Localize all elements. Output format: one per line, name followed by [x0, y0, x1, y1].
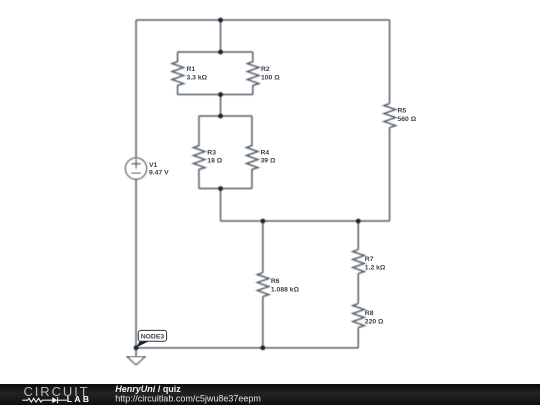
wire top T-branch — [220, 20, 222, 52]
junction mid rail R6 — [260, 219, 265, 224]
svg-text:3.3 kΩ: 3.3 kΩ — [187, 74, 208, 81]
svg-text:R1: R1 — [187, 66, 196, 73]
resistor R4 — [246, 116, 257, 189]
svg-text:R8: R8 — [365, 310, 374, 317]
label R1 value — [187, 66, 208, 81]
resistor R8 — [353, 304, 365, 328]
wire top rail — [136, 19, 389, 21]
resistor R3 — [193, 116, 205, 189]
wire R3R4 bottom to mid rail — [220, 189, 222, 222]
svg-text:HenryUni / quiz: HenryUni / quiz — [115, 384, 181, 394]
resistor R1 — [172, 52, 184, 95]
resistor R5 — [384, 104, 396, 128]
voltage source V1 circle — [125, 158, 146, 179]
logo resistor-diode wire — [22, 397, 67, 403]
junction mid rail R7 — [356, 219, 361, 224]
footer title HenryUni / quiz — [115, 384, 181, 394]
junction top rail — [218, 18, 223, 23]
svg-text:220 Ω: 220 Ω — [365, 318, 384, 325]
resistor R6 — [257, 273, 269, 297]
svg-text:9.47 V: 9.47 V — [149, 170, 169, 177]
resistor R2 — [247, 52, 258, 95]
svg-text:R4: R4 — [261, 149, 270, 156]
svg-text:V1: V1 — [149, 162, 158, 169]
svg-text:LAB: LAB — [67, 394, 92, 404]
ground — [127, 357, 145, 365]
label R2 value — [261, 66, 280, 81]
svg-text:560 Ω: 560 Ω — [398, 116, 417, 123]
label R4 value — [261, 149, 276, 164]
junction R3R4 bottom — [218, 186, 223, 191]
svg-text:1.088 kΩ: 1.088 kΩ — [271, 286, 300, 293]
wire R1R2 to R3R4 — [220, 95, 222, 117]
label R8 value — [365, 310, 384, 326]
wire R1R2 bottom rail — [178, 94, 253, 96]
label R3 value — [207, 149, 222, 164]
svg-text:18 Ω: 18 Ω — [207, 158, 222, 165]
junction R3R4 top — [218, 114, 223, 119]
node NODE3 flag — [136, 330, 167, 347]
wire left branch upper — [135, 20, 137, 158]
junction node3 — [134, 345, 139, 350]
wire R5 branch — [389, 20, 391, 221]
voltage source V1 plus-minus — [131, 159, 141, 173]
svg-text:100 Ω: 100 Ω — [261, 74, 280, 81]
label R6 value — [271, 278, 300, 293]
wire left branch lower — [135, 179, 137, 356]
svg-text:NODE3: NODE3 — [141, 334, 165, 341]
svg-text:R3: R3 — [207, 149, 216, 156]
svg-text:39 Ω: 39 Ω — [261, 158, 276, 165]
svg-text:R2: R2 — [261, 66, 270, 73]
junction bottom rail R6 — [260, 345, 265, 350]
logo CIRCUIT text — [24, 384, 90, 399]
label R5 value — [398, 108, 417, 123]
wire mid rail — [221, 220, 390, 222]
label V1 value — [149, 162, 169, 177]
svg-text:http://circuitlab.com/c5jwu8e3: http://circuitlab.com/c5jwu8e37eepm — [115, 394, 261, 404]
logo diode triangle — [52, 397, 57, 403]
svg-text:1.2 kΩ: 1.2 kΩ — [365, 264, 386, 271]
footer url — [115, 394, 261, 404]
logo LAB text — [67, 394, 92, 404]
wire R3R4 top rail — [199, 115, 252, 117]
junction R1R2 top — [218, 50, 223, 55]
svg-text:R6: R6 — [271, 278, 280, 285]
wire R1R2 top rail — [178, 51, 253, 53]
wire R7R8 branch — [357, 221, 359, 348]
junction R1R2 bottom — [218, 92, 223, 97]
wire R6 branch — [262, 221, 264, 348]
svg-text:R7: R7 — [365, 256, 374, 263]
resistor R7 — [353, 250, 365, 274]
label R7 value — [365, 256, 386, 272]
wire R3R4 bottom rail — [199, 188, 252, 190]
svg-text:R5: R5 — [398, 108, 407, 115]
wire bottom rail — [136, 347, 358, 349]
